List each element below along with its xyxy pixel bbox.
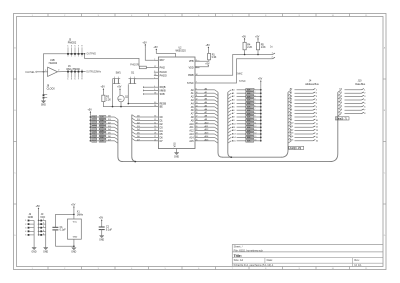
svg-text:+5V: +5V [71, 204, 76, 207]
power +5V RN2 [258, 78, 263, 87]
svg-text:+5V: +5V [101, 86, 106, 89]
svg-text:5: 5 [43, 233, 44, 235]
svg-text:37: 37 [154, 66, 156, 68]
svg-text:7: 7 [196, 82, 197, 84]
svg-text:10K: 10K [100, 120, 104, 122]
power +5V R3 [101, 86, 106, 96]
wire cpu address bus [218, 92, 223, 157]
svg-text:5: 5 [25, 235, 26, 237]
svg-text:Address Bus: Address Bus [305, 83, 319, 86]
svg-text:10K: 10K [247, 93, 251, 95]
svg-text:40: 40 [154, 102, 156, 104]
resistor R2 [130, 64, 146, 68]
svg-text:1: 1 [45, 70, 46, 72]
power +5V U3 [71, 204, 76, 215]
svg-text:+5V: +5V [36, 205, 41, 208]
svg-text:1: 1 [43, 219, 44, 221]
svg-text:Id: 1/1: Id: 1/1 [354, 263, 362, 267]
wire VDD pin [195, 66, 208, 67]
svg-text:7: 7 [154, 77, 155, 79]
svg-text:3: 3 [43, 226, 44, 228]
wire J10 bus riser [330, 92, 338, 161]
svg-text:+5V: +5V [153, 46, 158, 49]
svg-text:A15: A15 [189, 140, 194, 143]
svg-text:1: 1 [254, 89, 255, 91]
wire IRQ net [103, 102, 153, 107]
svg-text:1MHZ: 1MHZ [236, 73, 243, 76]
svg-text:CLKSEL: CLKSEL [25, 71, 35, 74]
svg-text:Size: A4: Size: A4 [234, 258, 244, 262]
net label OUTFLE2MHZ [86, 72, 101, 74]
resistor R4 [243, 42, 253, 54]
svg-text:0.1uF: 0.1uF [60, 229, 67, 232]
resistor R5 [256, 42, 266, 54]
power +5V C2 [99, 217, 104, 227]
svg-text:7: 7 [254, 109, 255, 111]
svg-text:31: 31 [154, 122, 156, 124]
junction RES [128, 103, 130, 105]
wire J4 bus riser [281, 92, 288, 157]
svg-text:BE: BE [160, 106, 164, 109]
svg-text:3: 3 [254, 95, 255, 97]
svg-text:2: 2 [154, 59, 155, 61]
svg-text:OUTFLE2MHz: OUTFLE2MHz [86, 72, 101, 74]
svg-text:+5V: +5V [99, 217, 104, 220]
svg-text:SOB: SOB [160, 93, 165, 96]
svg-text:PHI2O: PHI2O [160, 75, 167, 78]
svg-text:NMIB: NMIB [160, 89, 166, 92]
svg-text:PHI2: PHI2 [160, 66, 166, 69]
svg-text:GND: GND [99, 239, 104, 241]
wire CLK to J5 [44, 54, 85, 72]
svg-text:32: 32 [154, 119, 156, 121]
power +5V RN1 [88, 109, 93, 116]
capacitor C1 [52, 214, 66, 246]
svg-text:1MHz: 1MHz [77, 214, 84, 217]
wire address bus horizontal [222, 156, 282, 158]
wire R1 to VPB [195, 60, 209, 62]
svg-text:CLOCK: CLOCK [47, 87, 56, 90]
svg-text:10K: 10K [247, 127, 251, 129]
ground J2 [32, 248, 37, 254]
connector CLKSEL [25, 71, 39, 74]
svg-text:OSC_PMOD: OSC_PMOD [66, 68, 80, 71]
svg-text:29: 29 [154, 129, 156, 131]
svg-text:+5V: +5V [255, 35, 260, 38]
wire data bus horizontal [122, 161, 330, 163]
wire OUTPM2 to R2 [85, 54, 140, 66]
svg-text:VCC: VCC [73, 221, 78, 223]
connector J1 [270, 45, 275, 58]
svg-text:16: 16 [196, 112, 198, 114]
svg-text:27: 27 [154, 136, 156, 138]
svg-text:1: 1 [25, 220, 26, 222]
wire R2 to PHI2 [146, 67, 154, 69]
wire SYNC out [200, 59, 273, 83]
ground U3 [71, 248, 76, 254]
connector J3 VCC [38, 213, 46, 247]
ground C2 [99, 236, 104, 242]
svg-text:Sheet: /: Sheet: / [234, 245, 243, 249]
wire CLK input [40, 71, 48, 73]
connector J6 OSC_PMOD [63, 65, 86, 80]
svg-text:30: 30 [154, 126, 156, 128]
power +5V J3 [36, 205, 41, 221]
svg-text:15: 15 [196, 109, 198, 111]
svg-text:+5V: +5V [88, 109, 93, 112]
net label Addr bus [289, 146, 304, 150]
svg-text:+5V: +5V [206, 44, 211, 47]
junction Q1 [120, 106, 122, 108]
svg-text:SYNC: SYNC [187, 82, 194, 85]
bus entries CPU data [132, 115, 154, 142]
svg-text:17: 17 [196, 116, 198, 118]
connector J5 PMOD2 [67, 39, 83, 57]
power +5V RDY [142, 41, 147, 48]
svg-text:10K: 10K [247, 120, 251, 122]
svg-text:+5V: +5V [117, 86, 122, 89]
svg-text:16: 16 [254, 140, 256, 142]
svg-text:PMOD2: PMOD2 [68, 42, 77, 45]
svg-text:+5V: +5V [242, 35, 247, 38]
power +5V CPU VDD top [153, 46, 175, 57]
svg-text:RWB: RWB [188, 74, 194, 77]
svg-text:36: 36 [154, 105, 156, 107]
connector J2 GND [25, 213, 34, 247]
svg-text:VSS: VSS [174, 142, 177, 147]
transistor Q1 [118, 95, 129, 101]
junction R4 [244, 54, 246, 56]
inverter U1B [45, 59, 59, 76]
svg-text:Rev:: Rev: [354, 258, 360, 262]
svg-text:24: 24 [196, 136, 198, 138]
wire data bus left [118, 119, 123, 161]
svg-text:GND: GND [71, 252, 76, 254]
wire SO stub [144, 93, 154, 95]
svg-text:10K: 10K [247, 113, 251, 115]
bus entries CPU address [200, 87, 219, 143]
svg-text:J10: J10 [358, 80, 363, 83]
svg-text:Title:: Title: [234, 254, 242, 258]
svg-text:10: 10 [196, 92, 198, 94]
svg-text:14: 14 [254, 133, 256, 135]
ground clock [41, 101, 46, 107]
wire PHI2O pin [135, 78, 154, 80]
svg-text:10K: 10K [247, 103, 251, 105]
svg-text:6: 6 [254, 106, 255, 108]
switch J7 SW1 [113, 71, 122, 83]
ground J3 [43, 248, 48, 254]
ground VSS [174, 149, 179, 159]
op-amp U2 CPU W65C02 [154, 47, 200, 148]
net label Data bus [335, 117, 349, 121]
title block [232, 244, 383, 267]
svg-text:22: 22 [196, 129, 198, 131]
junction R5 [257, 54, 259, 56]
wire cpu data bus [132, 115, 137, 162]
svg-text:5: 5 [254, 102, 255, 104]
svg-text:SW1: SW1 [116, 71, 122, 74]
svg-text:39: 39 [154, 74, 156, 76]
svg-text:10K: 10K [247, 117, 251, 119]
wire C1 top [55, 213, 74, 215]
svg-text:10K: 10K [247, 134, 251, 136]
svg-text:VPB: VPB [189, 60, 194, 63]
svg-text:10: 10 [254, 119, 256, 121]
svg-text:26: 26 [154, 139, 156, 141]
svg-text:14: 14 [196, 105, 198, 107]
svg-text:10K: 10K [100, 137, 104, 139]
connector J4 Address Bus [288, 80, 319, 144]
svg-text:11: 11 [254, 123, 256, 125]
svg-text:10K: 10K [247, 100, 251, 102]
svg-text:VDD: VDD [189, 67, 194, 70]
svg-text:10K: 10K [247, 130, 251, 132]
svg-text:+5V: +5V [258, 78, 263, 81]
svg-text:4: 4 [43, 230, 44, 232]
svg-text:KiCad E.D.A. eeschema (5.1.10: KiCad E.D.A. eeschema (5.1.10)-1 [234, 263, 274, 267]
svg-text:0.1uF: 0.1uF [106, 228, 113, 231]
junction CLK node [43, 71, 45, 73]
svg-text:4: 4 [154, 86, 155, 88]
op-amp U3 oscillator [68, 211, 84, 247]
junction SW1 [112, 106, 114, 108]
svg-text:GND: GND [174, 156, 179, 158]
svg-text:Data[0..7]: Data[0..7] [336, 117, 347, 120]
net label OUTPM2 [84, 53, 97, 56]
junction address bus [230, 156, 232, 158]
svg-text:25: 25 [196, 139, 198, 141]
svg-text:10K: 10K [247, 110, 251, 112]
junction data bus [134, 161, 136, 163]
svg-text:1: 1 [272, 52, 273, 54]
svg-text:19: 19 [196, 122, 198, 124]
power +5V R1 [206, 44, 211, 53]
wire U1B output [58, 71, 63, 73]
svg-text:GND: GND [28, 216, 34, 219]
svg-text:2: 2 [272, 57, 273, 59]
svg-text:23: 23 [196, 133, 198, 135]
resistor R1 [208, 53, 217, 60]
svg-text:10K: 10K [100, 117, 104, 119]
power +5V R5 [255, 35, 260, 42]
svg-text:13: 13 [196, 102, 198, 104]
resistor network RN1 [90, 115, 112, 142]
svg-text:3: 3 [25, 227, 26, 229]
connector J8 CLOCK [43, 72, 56, 101]
wire RN2 bus [228, 92, 233, 157]
svg-text:28: 28 [154, 133, 156, 135]
svg-text:Data Bus: Data Bus [355, 83, 366, 86]
svg-text:10K: 10K [100, 124, 104, 126]
svg-text:6: 6 [154, 89, 155, 91]
connector J10 Data Bus [338, 80, 367, 116]
power +5V Q1 [117, 86, 122, 96]
svg-text:Date:: Date: [267, 258, 273, 262]
svg-text:33: 33 [154, 116, 156, 118]
power +5V VDD pin [205, 62, 210, 66]
svg-text:4: 4 [254, 99, 255, 101]
svg-text:8: 8 [254, 112, 255, 114]
svg-text:W65C02S: W65C02S [176, 50, 187, 52]
svg-text:34: 34 [196, 74, 198, 76]
svg-text:10K: 10K [100, 141, 104, 143]
svg-text:SYNC: SYNC [239, 80, 246, 83]
resistor network RN2 [228, 86, 262, 143]
wire C1 bottom [55, 245, 74, 247]
svg-text:2: 2 [254, 92, 255, 94]
svg-text:10K: 10K [100, 127, 104, 129]
svg-text:2: 2 [43, 223, 44, 225]
capacitor C2 [99, 226, 113, 236]
bus entries RN1 [112, 117, 118, 143]
svg-text:OUTPM2: OUTPM2 [87, 54, 97, 56]
svg-text:10K: 10K [247, 137, 251, 139]
wire RES net [128, 84, 154, 103]
svg-text:GND: GND [43, 251, 48, 253]
svg-text:RDY: RDY [160, 59, 165, 62]
svg-text:20: 20 [196, 126, 198, 128]
svg-text:1.0K: 1.0K [261, 46, 266, 49]
wire Q1 emitter [120, 102, 122, 107]
wire NMI stub [144, 90, 154, 92]
resistor R3 [102, 95, 112, 101]
svg-text:2.2K: 2.2K [106, 98, 111, 101]
svg-text:3: 3 [154, 71, 155, 73]
svg-text:+5V: +5V [205, 62, 210, 65]
svg-text:15: 15 [254, 136, 256, 138]
svg-text:3.3K: 3.3K [212, 56, 217, 59]
diode D1 [129, 71, 137, 83]
wire RDY [145, 48, 154, 60]
wire IRQ stub [144, 86, 154, 88]
svg-text:Addr[0..15]: Addr[0..15] [290, 147, 302, 150]
svg-text:2: 2 [25, 224, 26, 226]
svg-text:38: 38 [154, 93, 156, 95]
svg-text:10K: 10K [247, 96, 251, 98]
svg-text:GND: GND [41, 105, 46, 107]
wire PHI2 out [200, 55, 273, 76]
svg-text:9: 9 [254, 116, 255, 118]
svg-text:4: 4 [25, 231, 26, 233]
svg-text:9: 9 [196, 88, 197, 90]
wire SW1 drop [112, 84, 114, 107]
svg-text:13: 13 [254, 129, 256, 131]
svg-text:2.2K: 2.2K [247, 46, 252, 49]
svg-text:10K: 10K [100, 130, 104, 132]
svg-text:2: 2 [58, 70, 59, 72]
svg-text:12: 12 [196, 99, 198, 101]
svg-text:10K: 10K [247, 90, 251, 92]
svg-text:GND: GND [32, 251, 37, 253]
svg-text:PHI2OR: PHI2OR [130, 64, 139, 66]
svg-text:10K: 10K [247, 141, 251, 143]
svg-text:+5V: +5V [142, 41, 147, 44]
svg-text:GND: GND [73, 237, 78, 239]
svg-text:18: 18 [196, 119, 198, 121]
svg-text:11: 11 [196, 95, 198, 97]
svg-text:74HC04: 74HC04 [48, 62, 57, 65]
svg-text:File: 6502_homebrew.sch: File: 6502_homebrew.sch [234, 248, 264, 252]
power +5V R4 [242, 35, 247, 42]
svg-text:10K: 10K [247, 124, 251, 126]
svg-text:12: 12 [254, 126, 256, 128]
svg-text:10K: 10K [247, 107, 251, 109]
svg-text:10K: 10K [100, 134, 104, 136]
